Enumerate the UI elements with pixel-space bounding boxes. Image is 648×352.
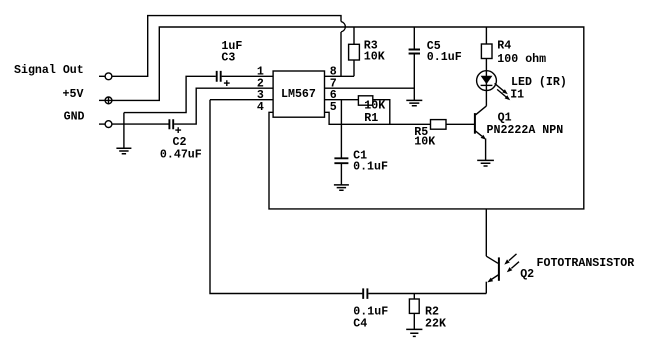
terminal +5V [99,97,112,104]
wire pin 6 [325,99,359,101]
resistor R4 [481,27,546,66]
wire ground branch [123,113,125,149]
transistor Q2 phototransistor [486,256,499,293]
capacitor C5 [409,27,462,100]
terminal GND [99,121,112,128]
capacitor C4 [353,288,388,330]
capacitor C2 [169,119,181,133]
wire C2 to pin 2 [174,88,273,124]
LED D1 [477,59,497,106]
svg-text:R4: R4 [497,40,511,53]
svg-text:5: 5 [330,101,337,114]
wire R3 leads [353,27,355,76]
svg-text:22K: 22K [425,317,446,330]
wire R5 to base [446,123,475,125]
svg-text:GND: GND [64,111,85,124]
svg-text:0.1uF: 0.1uF [427,51,462,64]
svg-text:0.1uF: 0.1uF [353,161,388,174]
wire pin 3 long [210,100,362,294]
LED emission arrows [495,83,511,100]
ground [116,148,131,154]
svg-text:Q1: Q1 [498,112,512,125]
svg-text:10K: 10K [414,136,435,149]
svg-text:R1: R1 [364,112,378,125]
terminal Signal Out [99,73,112,80]
svg-text:FOTOTRANSISTOR: FOTOTRANSISTOR [537,257,635,270]
wire hop over +5V line [341,22,345,33]
wire pin 8 [325,75,355,77]
resistor R2 [409,294,446,331]
wire C4 to Q2 emitter [368,293,486,295]
ground [334,185,349,190]
wire Q2 collector [485,209,487,256]
svg-text:C2: C2 [173,136,187,149]
svg-text:10K: 10K [364,100,385,113]
wire pin 5 [325,112,431,124]
wire pin 7 to ground [325,87,415,89]
wire C1 stem [340,100,342,159]
svg-text:0.47uF: 0.47uF [160,148,202,161]
ground [406,100,422,105]
svg-text:I1: I1 [510,89,524,102]
wire C1 to ground [340,163,342,185]
svg-text:C4: C4 [353,317,367,330]
wire jog to C3 [124,76,216,112]
ground [477,160,494,166]
svg-text:10K: 10K [364,50,385,63]
capacitor C3 [217,71,230,86]
svg-text:C3: C3 [221,51,235,64]
op-amp U1 LM567 [273,71,324,117]
svg-text:+5V: +5V [63,88,84,101]
wire C3 to pin 1 [222,75,274,77]
resistor R3 [349,40,385,64]
resistor R1 [358,96,385,125]
svg-text:PN2222A NPN: PN2222A NPN [487,124,564,137]
svg-text:LM567: LM567 [281,88,316,101]
wire Signal Out to top [112,16,341,77]
capacitor C1 [334,158,348,163]
svg-text:100 ohm: 100 ohm [497,53,546,66]
resistor R5 [414,120,446,149]
transistor Q1 [475,106,487,160]
svg-text:Q2: Q2 [520,268,534,281]
wire +5V rail [112,27,584,209]
wire R1 to pin5 net [373,100,390,125]
svg-text:LED (IR): LED (IR) [511,76,567,89]
ground [406,329,422,336]
wire GND to C2 [112,123,169,125]
wire down to pin 8 [340,32,342,76]
svg-text:4: 4 [257,101,264,114]
Q2 light arrows [504,254,519,272]
svg-text:Signal Out: Signal Out [14,64,84,77]
